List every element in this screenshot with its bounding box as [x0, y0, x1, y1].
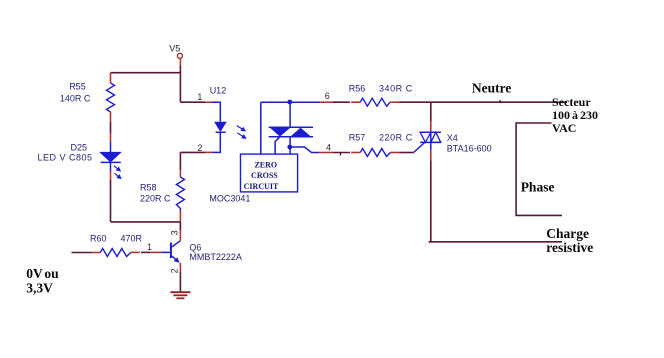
svg-text:Q6: Q6 [189, 243, 201, 253]
svg-text:1: 1 [197, 92, 202, 102]
svg-text:ZERO: ZERO [254, 160, 277, 169]
resistor R55 body [107, 83, 115, 112]
power pin V5 red stub [179, 59, 181, 66]
svg-text:470R: 470R [121, 233, 143, 243]
triac X4 [414, 132, 441, 152]
U12 LED emission arrows [237, 126, 246, 138]
transistor Q6 [161, 241, 180, 263]
svg-text:V5: V5 [169, 44, 180, 54]
resistor R56 body [360, 98, 390, 106]
wire U12 pin4 to R57 [333, 152, 350, 154]
LED D25 [100, 142, 121, 171]
resistor R58 pin bottom [179, 211, 181, 222]
wire U12 pin6 to R56 [333, 101, 350, 103]
svg-text:R60: R60 [90, 233, 107, 243]
wire Neutre to X4 vertical [430, 102, 432, 121]
diode D25 pin top [110, 133, 112, 142]
wire Neutre net [399, 101, 567, 103]
U12 pin 4 [319, 152, 333, 154]
wire R60 to Q6 base [141, 251, 151, 253]
wire X4 MT1 down [430, 160, 432, 242]
svg-text:R58: R58 [140, 183, 157, 193]
wire emitter to ground [179, 272, 181, 291]
resistor R57 body [360, 149, 390, 157]
svg-text:BTA16-600: BTA16-600 [447, 143, 492, 153]
resistor R58 body [176, 177, 184, 211]
svg-text:R55: R55 [69, 82, 86, 92]
svg-text:220R C: 220R C [379, 133, 413, 143]
diode D25 pin bottom [110, 171, 112, 180]
svg-text:4: 4 [326, 143, 331, 153]
svg-text:Phase: Phase [521, 180, 555, 195]
svg-text:MOC3041: MOC3041 [209, 194, 250, 204]
resistor R57 pin left [351, 152, 360, 154]
ground [170, 292, 190, 298]
optocoupler U12 LED side [212, 102, 226, 152]
svg-text:140R C: 140R C [60, 93, 91, 103]
wire V5 to R55 horizontal [111, 72, 181, 74]
junction dot U12 triac top [287, 100, 292, 105]
resistor R60 body [100, 249, 131, 257]
LED D25 emission arrows [114, 166, 121, 178]
svg-text:D25: D25 [71, 142, 88, 152]
wire R57 to X4 gate [399, 152, 414, 154]
Q6 emitter pin [179, 263, 181, 272]
svg-text:3,3V: 3,3V [26, 280, 53, 295]
svg-text:340R C: 340R C [379, 83, 413, 93]
wire V5 to U12 pin1 [180, 101, 205, 103]
wire V5 vertical [179, 66, 181, 102]
svg-text:resistive: resistive [546, 240, 593, 255]
resistor R60 pin right [131, 251, 140, 253]
power terminal V5 circle [177, 53, 182, 58]
triac X4 pin MT2 [430, 121, 432, 132]
svg-text:R57: R57 [349, 133, 366, 143]
resistor R55 pin top [110, 73, 112, 83]
wire D25 down [110, 180, 112, 222]
svg-text:6: 6 [325, 91, 330, 101]
svg-text:CIRCUIT: CIRCUIT [244, 182, 279, 191]
wire D25 to R58 node horizontal [111, 221, 181, 223]
zero cross circuit box [241, 154, 298, 192]
svg-text:LED V C805: LED V C805 [38, 153, 93, 163]
resistor R56 pin right [390, 101, 399, 103]
Q6 base pin [151, 251, 162, 253]
svg-text:Neutre: Neutre [472, 80, 512, 95]
wire R55 to D25 [110, 122, 112, 133]
optocoupler U12 photo-triac side [261, 102, 320, 154]
resistor R55 pin bottom [110, 112, 112, 122]
svg-text:100 à 230: 100 à 230 [552, 108, 598, 122]
svg-text:Charge: Charge [546, 226, 589, 241]
wire label tick Neutre [499, 100, 501, 102]
svg-text:220R C: 220R C [140, 194, 171, 204]
wire input to R60 [72, 252, 93, 254]
resistor R60 pin left [92, 252, 100, 254]
Q6 collector pin [179, 230, 181, 241]
triac X4 pin MT1 [430, 150, 432, 160]
svg-text:3: 3 [170, 230, 180, 235]
svg-text:R56: R56 [349, 83, 366, 93]
svg-text:0V ou: 0V ou [26, 266, 59, 281]
svg-text:1: 1 [147, 242, 152, 252]
svg-text:X4: X4 [447, 133, 458, 143]
U12 pin 1 [205, 101, 212, 103]
svg-text:MMBT2222A: MMBT2222A [189, 252, 242, 262]
wire Phase bracket [516, 123, 562, 215]
svg-text:CROSS: CROSS [251, 171, 278, 180]
wire U12 pin2 to R58 [180, 151, 205, 153]
U12 pin 6 [320, 101, 333, 103]
svg-text:VAC: VAC [552, 121, 576, 135]
U12 pin 2 [205, 151, 212, 153]
junction dot U12 gate [287, 145, 292, 150]
svg-text:Secteur: Secteur [552, 95, 591, 109]
resistor R57 pin right [390, 152, 399, 154]
wire node to Q6 collector [179, 222, 181, 230]
svg-text:2: 2 [170, 268, 180, 273]
wire U12 pin2 node to R58 [179, 152, 181, 170]
resistor R58 pin top [179, 170, 181, 177]
wire label tick gate net [340, 153, 342, 156]
resistor R56 pin left [351, 101, 360, 103]
svg-text:U12: U12 [210, 86, 227, 96]
wire charge resistive horizontal [429, 241, 562, 243]
